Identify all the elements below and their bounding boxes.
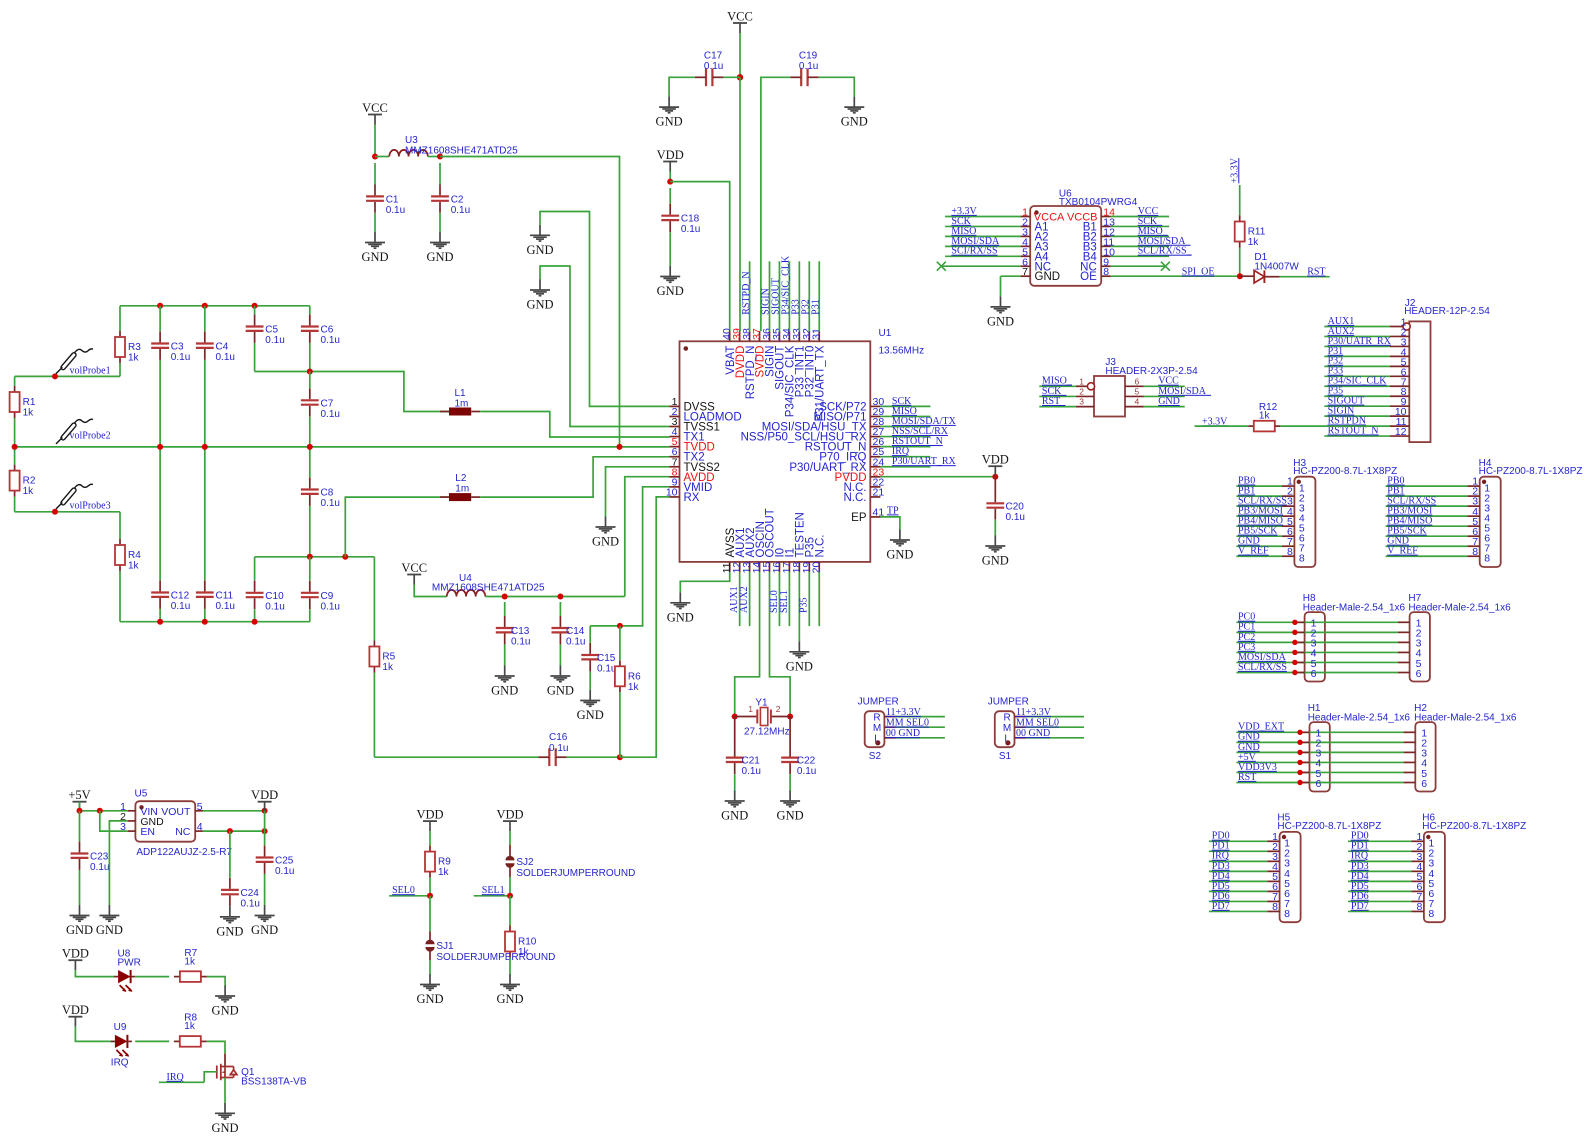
wire DVDD vertical (pin 39) <box>739 77 741 331</box>
U5 pin 5 VOUT <box>195 810 203 812</box>
capacitor C4 <box>196 344 214 348</box>
svg-text:R4: R4 <box>128 550 141 561</box>
wire VMID pin 9 to C15/R6 <box>590 487 669 626</box>
junction lower rail C8 <box>307 554 313 560</box>
svg-text:GND: GND <box>886 548 913 562</box>
wire Q1 source to GND <box>224 1078 226 1103</box>
svg-text:+5V: +5V <box>68 788 90 802</box>
svg-text:MMZ1608SHE471ATD25: MMZ1608SHE471ATD25 <box>432 583 545 594</box>
svg-text:C2: C2 <box>451 194 464 205</box>
svg-text:GND: GND <box>657 284 684 298</box>
svg-text:00 GND: 00 GND <box>1016 728 1050 739</box>
U1 pin 5 TVDD <box>669 446 679 448</box>
U1 pin 29 MISO/P71 <box>870 415 880 417</box>
solder jumper SJ2 <box>505 856 514 861</box>
wire down to C25 <box>264 811 266 846</box>
junction VMID R6 <box>617 623 623 629</box>
svg-text:C5: C5 <box>265 325 278 336</box>
wire net stub RSTPD_N <box>749 261 751 331</box>
wire + label 11+3.3V (S2) <box>896 716 945 718</box>
wire C22 to GND <box>789 774 791 790</box>
power VDD (PVDD) <box>988 465 1002 467</box>
svg-text:0.1u: 0.1u <box>549 743 568 754</box>
svg-text:2: 2 <box>1079 386 1084 396</box>
svg-text:20: 20 <box>811 562 823 574</box>
svg-text:6: 6 <box>1135 376 1140 386</box>
header H4 pin 2 + net label PB1 <box>1467 495 1479 497</box>
solder jumper SJ1 <box>425 940 434 945</box>
capacitor C1 <box>374 163 376 185</box>
wire TVSS2 pin 7 to GND <box>606 467 670 517</box>
wire R3 bottom <box>119 363 121 376</box>
U1 pin 17 I1 <box>788 562 790 572</box>
circle J3 pin 1 marker <box>1087 383 1094 390</box>
wire U3 out to TVDD rail <box>440 157 620 447</box>
wire C12 bottom <box>159 609 161 622</box>
wire C11 bottom <box>204 609 206 622</box>
header H3 pin 4 + net label PB3/MOSI <box>1282 515 1294 517</box>
svg-text:M: M <box>873 723 881 734</box>
header H6 pin 2 + net label PD1 <box>1412 850 1424 852</box>
wire VDD to SJ2 <box>509 831 511 845</box>
header H5 pin 1 + net label PD0 <box>1267 840 1279 842</box>
junction C24 <box>227 828 233 834</box>
wire + label 00 GND (S2) <box>896 737 945 739</box>
svg-text:C16: C16 <box>549 732 568 743</box>
wire R4 bottom <box>119 571 121 622</box>
svg-text:0.1u: 0.1u <box>681 224 700 235</box>
svg-text:1m: 1m <box>455 483 469 494</box>
junction top rail C4 <box>202 303 208 309</box>
U1 pin 25 P70_IRQ <box>870 456 880 458</box>
svg-text:0.1u: 0.1u <box>171 601 190 612</box>
ground below C13 <box>495 666 515 682</box>
svg-text:7: 7 <box>1022 266 1028 278</box>
svg-text:VCC: VCC <box>362 101 388 115</box>
U6 pin 6 NC <box>1021 265 1031 267</box>
capacitor C7 <box>301 400 319 404</box>
wire PC0 through H8 pin 1 to H7 pin 1 <box>1236 621 1398 623</box>
svg-text:U3: U3 <box>405 135 418 146</box>
capacitor C8 <box>301 490 319 494</box>
capacitor C11 <box>196 593 214 597</box>
svg-text:GND: GND <box>1158 396 1180 407</box>
header H3 body <box>1294 477 1315 567</box>
junction VOUT/VDD <box>262 808 268 814</box>
svg-text:EP: EP <box>851 512 867 524</box>
svg-text:8: 8 <box>1299 553 1305 565</box>
capacitor C9 <box>301 593 319 597</box>
capacitor C23 <box>79 811 81 842</box>
U1 pin 37 SVDD <box>759 331 761 341</box>
U6 pin 12 B2 <box>1101 235 1111 237</box>
wire VOUT to VDD <box>203 810 265 812</box>
capacitor C6 <box>301 327 319 331</box>
wire + net label P30/UART_RX <box>880 466 930 468</box>
ground (U5 GND) <box>99 905 119 921</box>
power VCC (top) <box>733 22 747 24</box>
U1 pin 27 NSS/P50_SCL/HSU_RX <box>870 436 880 438</box>
capacitor C22 <box>789 717 791 746</box>
svg-text:C1: C1 <box>386 194 399 205</box>
svg-text:S2: S2 <box>869 751 882 762</box>
capacitor C12 <box>151 593 169 597</box>
wire C19 to GND <box>819 77 855 96</box>
probe volProbe3 symbol <box>56 484 93 509</box>
wire C23 to GND <box>79 870 81 905</box>
svg-text:TXB0104PWRG4: TXB0104PWRG4 <box>1059 197 1138 208</box>
ground (DVSS) <box>530 225 550 241</box>
wire C4-C11 column <box>204 360 206 580</box>
header H6 pin 5 + net label PD4 <box>1412 880 1424 882</box>
J2 pin 7 + net label P34/SIC_CLK <box>1390 385 1410 387</box>
header H6 pin 3 + net label IRQ <box>1412 860 1424 862</box>
J2 pin 11 + net label RSTPDN <box>1390 425 1410 427</box>
svg-text:TP: TP <box>887 505 899 516</box>
wire C8 lower rail <box>255 556 375 558</box>
wire R3 top <box>119 306 121 331</box>
wire + net label MOSI/SDA_ (U6 right) <box>1111 245 1169 247</box>
wire bottom rail <box>120 621 310 623</box>
U1 pin 20 N.C. <box>818 562 820 572</box>
svg-text:0.1u: 0.1u <box>597 664 616 675</box>
svg-text:5: 5 <box>1135 386 1140 396</box>
header H6 pin 6 + net label PD5 <box>1412 890 1424 892</box>
U1 pin 22 N.C. <box>870 486 880 488</box>
wire + net label MISO_ (U6 right) <box>1111 235 1169 237</box>
capacitor C25 <box>256 858 274 862</box>
U6 pin 11 B3 <box>1101 245 1111 247</box>
wire R6 top <box>619 626 621 660</box>
junction volProbe1 <box>52 373 58 379</box>
wire C10 top <box>254 557 256 581</box>
power VDD (PWR LED) <box>68 959 82 961</box>
svg-text:0.1u: 0.1u <box>265 601 284 612</box>
junction +5V/C23 <box>77 808 83 814</box>
header H5 body <box>1280 832 1301 922</box>
svg-text:5: 5 <box>197 801 203 813</box>
svg-text:0.1u: 0.1u <box>797 766 816 777</box>
wire + net label SCK_ (U6 right) <box>1111 225 1169 227</box>
wire C7 top <box>309 372 311 389</box>
J2 pin 5 + net label P32 <box>1390 365 1410 367</box>
U6 pin 2 A1 <box>1021 225 1031 227</box>
U1 pin 18 TESTEN <box>798 562 800 572</box>
capacitor C18 <box>669 188 671 204</box>
ground below R10 <box>500 974 520 990</box>
svg-text:8: 8 <box>1272 901 1278 913</box>
wire +5V to VIN <box>80 810 128 812</box>
svg-text:volProbe3: volProbe3 <box>70 501 111 512</box>
svg-text:M: M <box>1003 723 1011 734</box>
power +5V <box>73 801 87 803</box>
junction volProbe3 <box>52 509 58 515</box>
header H7 body <box>1410 612 1430 681</box>
ferrite bead U3 <box>389 150 428 157</box>
ground below C25 <box>255 905 275 921</box>
svg-text:C19: C19 <box>799 51 818 62</box>
U1 pin 39 DVDD <box>739 331 741 341</box>
U1 pin 9 VMID <box>669 486 679 488</box>
wire U6 GND down <box>1000 276 1002 296</box>
svg-text:0.1u: 0.1u <box>321 335 340 346</box>
svg-text:0.1u: 0.1u <box>321 409 340 420</box>
U1 pin 8 AVDD <box>669 476 679 478</box>
svg-text:4: 4 <box>1135 397 1140 407</box>
probe volProbe1 symbol <box>56 349 93 374</box>
svg-text:GND: GND <box>251 923 278 937</box>
svg-text:SPI_OE: SPI_OE <box>1182 266 1215 277</box>
svg-text:R6: R6 <box>628 671 641 682</box>
header H5 pin 2 + net label PD1 <box>1267 850 1279 852</box>
U1 pin 12 AUX1 <box>739 562 741 572</box>
junction VIN/EN <box>97 808 103 814</box>
svg-text:HC-PZ200-8.7L-1X8PZ: HC-PZ200-8.7L-1X8PZ <box>1422 821 1526 832</box>
U1 pin 41 EP <box>870 516 880 518</box>
svg-text:13.56MHz: 13.56MHz <box>879 346 925 357</box>
U6 pin 5 A4 <box>1021 255 1031 257</box>
op-amp U1 main IC PN5321 body <box>680 341 871 562</box>
wire TVDD rail to pin 5 <box>15 446 670 448</box>
svg-text:volProbe1: volProbe1 <box>70 366 111 377</box>
junction Y1 left <box>732 714 738 720</box>
wire VCC to U4 <box>414 585 447 597</box>
svg-text:PD7: PD7 <box>1212 901 1230 912</box>
wire + net label RST <box>1280 276 1330 278</box>
wire U3 out <box>428 156 440 158</box>
U1 pin 7 TVSS2 <box>669 466 679 468</box>
ground below C23 <box>70 905 90 921</box>
U1 pin 32 P32_INT0 <box>808 331 810 341</box>
ground below EP <box>890 530 910 546</box>
svg-text:PWR: PWR <box>118 957 141 968</box>
wire net stub P31 <box>818 261 820 331</box>
svg-text:MM SEL0: MM SEL0 <box>1016 718 1059 729</box>
header H8 body <box>1305 612 1325 681</box>
wire + net label SCL/RX/SS_ (U6 right) <box>1111 255 1169 257</box>
wire top rail <box>120 305 310 307</box>
capacitor C16 <box>549 748 555 766</box>
svg-text:GND: GND <box>526 298 553 312</box>
wire R1 bottom <box>14 418 16 447</box>
svg-text:IRQ: IRQ <box>111 1057 129 1068</box>
svg-text:1k: 1k <box>23 408 35 419</box>
power VDD (R9) <box>423 820 437 822</box>
U1 pin 38 RSTPD_N <box>749 331 751 341</box>
U1 pin 30 SCK/P72 <box>870 405 880 407</box>
svg-text:+3.3V: +3.3V <box>1229 157 1240 183</box>
svg-text:C9: C9 <box>321 591 334 602</box>
J2 pin 10 + net label SIGIN <box>1390 415 1410 417</box>
diode D1 <box>1240 275 1254 277</box>
wire C14 to GND <box>559 645 561 666</box>
LED U9 IRQ <box>115 1035 128 1048</box>
U5 pin 1 VIN <box>128 810 136 812</box>
J2 pin 1 + net label AUX1 <box>1390 326 1403 328</box>
resistor R8 <box>174 1040 180 1042</box>
wire +3.3V to R12 <box>1195 425 1249 427</box>
header H3 pin 5 + net label PB4/MISO <box>1282 525 1294 527</box>
ground below C18 <box>660 266 680 282</box>
svg-text:R: R <box>873 712 880 723</box>
header H6 pin 8 + net label PD7 <box>1412 910 1424 912</box>
svg-text:8: 8 <box>1416 901 1422 913</box>
wire R4 top <box>119 512 121 539</box>
header H4 body <box>1480 477 1501 567</box>
svg-text:VCC: VCC <box>401 561 427 575</box>
svg-text:GND: GND <box>426 250 453 264</box>
svg-text:GND: GND <box>777 809 804 823</box>
svg-text:BSS138TA-VB: BSS138TA-VB <box>241 1077 307 1088</box>
ground below C21 <box>725 791 745 807</box>
svg-text:GND: GND <box>786 659 813 673</box>
wire net stub SIGOUT <box>778 261 780 331</box>
wire R1 top <box>14 376 16 386</box>
wire SCL/RX/SS through H8 pin 6 to H7 pin 6 <box>1236 672 1398 674</box>
resistor R1 <box>14 386 16 392</box>
wire C9 bottom <box>309 609 311 621</box>
wire GND through H1 pin 3 to H2 pin 3 <box>1236 751 1403 753</box>
svg-text:C8: C8 <box>321 488 334 499</box>
ground below C24 <box>220 906 240 922</box>
junction top rail C5 <box>252 303 258 309</box>
wire C9 top <box>309 557 311 581</box>
junction TVDD rail C7/C8 <box>307 444 313 450</box>
resistor R6 <box>619 660 621 666</box>
probe volProbe2 symbol <box>56 419 93 444</box>
wire + net label SEL1 <box>474 895 510 897</box>
svg-text:EN: EN <box>140 826 155 838</box>
svg-text:0.1u: 0.1u <box>451 205 470 216</box>
U1 pin 3 TVSS1 <box>669 426 679 428</box>
svg-text:1k: 1k <box>23 486 35 497</box>
junction C16/R6/RX <box>617 754 623 760</box>
U1 pin 15 OSCOUT <box>769 562 771 572</box>
svg-text:0.1u: 0.1u <box>90 862 109 873</box>
wire + net label SCK (U6 left) <box>945 225 1021 227</box>
capacitor C5 <box>246 327 264 331</box>
U6 pin 9 NC <box>1101 265 1111 267</box>
svg-text:0.1u: 0.1u <box>216 352 235 363</box>
wire volProbe1 node <box>15 375 120 377</box>
svg-text:P31: P31 <box>810 299 821 315</box>
svg-text:R10: R10 <box>518 937 537 948</box>
svg-text:1k: 1k <box>1259 410 1271 421</box>
svg-text:C20: C20 <box>1006 501 1025 512</box>
junction TVDD rail C4 column <box>202 444 208 450</box>
svg-text:6: 6 <box>1316 778 1322 790</box>
wire RST through H1 pin 6 to H2 pin 6 <box>1236 782 1403 784</box>
wire R10 to GND <box>509 958 511 975</box>
svg-text:1N4007W: 1N4007W <box>1254 262 1299 273</box>
ground (PWR LED) <box>215 986 235 1002</box>
svg-text:VDD: VDD <box>416 808 443 822</box>
wire U6 GND pin 7 <box>1001 275 1021 277</box>
header H5 pin 4 + net label PD3 <box>1267 870 1279 872</box>
svg-text:VCC: VCC <box>727 10 753 24</box>
wire + net label AUX2 <box>749 572 751 626</box>
svg-text:RSTOUT_N: RSTOUT_N <box>1328 425 1379 436</box>
wire C19 to SVDD vertical (pin 37) <box>761 77 790 331</box>
wire mid rail to L1 <box>255 372 449 412</box>
J2 pin 2 + net label AUX2 <box>1390 335 1410 337</box>
connector J3 body <box>1094 376 1125 417</box>
svg-text:Y1: Y1 <box>755 697 768 708</box>
svg-text:0.1u: 0.1u <box>171 352 190 363</box>
U1 pin 21 N.C. <box>870 496 880 498</box>
capacitor C19 <box>801 68 807 86</box>
svg-text:6: 6 <box>1311 668 1317 680</box>
capacitor C15 <box>589 626 591 643</box>
ground (Q1 source) <box>215 1103 235 1119</box>
header H3 pin 7 + net label GND <box>1282 545 1294 547</box>
svg-text:NC: NC <box>175 826 191 838</box>
U1 pin 4 TX1 <box>669 436 679 438</box>
svg-text:GND: GND <box>987 314 1014 328</box>
svg-text:GND: GND <box>216 924 243 938</box>
wire NC row <box>203 830 265 832</box>
U1 pin 11 AVSS <box>729 562 731 572</box>
ground below SJ1 <box>420 974 440 990</box>
wire PC3 through H8 pin 4 to H7 pin 4 <box>1236 651 1398 653</box>
wire L2 to TX2 pin 6 <box>480 457 669 497</box>
ground (U6) <box>991 296 1011 312</box>
LED U8 PWR <box>118 970 131 983</box>
U1 pin 31 P31/UART_TX <box>818 331 820 341</box>
svg-text:C13: C13 <box>511 626 530 637</box>
svg-text:1k: 1k <box>438 867 450 878</box>
ground (TVSS2) <box>596 517 616 533</box>
power VDD (IRQ LED) <box>68 1016 82 1018</box>
svg-text:12: 12 <box>1395 426 1407 438</box>
svg-text:C12: C12 <box>171 591 190 602</box>
capacitor C17 <box>706 68 712 86</box>
svg-text:ADP122AUJZ-2.5-R7: ADP122AUJZ-2.5-R7 <box>136 847 232 858</box>
header H4 pin 6 + net label PB5/SCK <box>1467 535 1479 537</box>
wire + label MM SEL0 (S2) <box>896 726 945 728</box>
wire + label 11+3.3V (S1) <box>1026 716 1084 718</box>
svg-text:VDD: VDD <box>982 453 1009 467</box>
wire +5V down <box>79 802 81 811</box>
wire R9 to SEL0 <box>429 878 431 896</box>
wire + net label P35 <box>808 572 810 626</box>
U1 pin 1 DVSS <box>669 405 679 407</box>
svg-text:RST: RST <box>1238 772 1256 783</box>
J2 pin 6 + net label P33 <box>1390 375 1410 377</box>
junction TVDD rail U3 feed <box>617 444 623 450</box>
svg-text:C7: C7 <box>321 398 334 409</box>
wire VDD to VBAT (pin 40) <box>670 182 730 332</box>
wire EN tie <box>100 811 128 831</box>
ground below C14 <box>550 666 570 682</box>
U1 pin 28 MOSI/SDA/HSU_TX <box>870 426 880 428</box>
header H6 pin 1 + net label PD0 <box>1412 840 1424 842</box>
ground (AVSS) <box>670 592 690 608</box>
wire SEL0 to SJ1 <box>429 896 431 932</box>
ground below C1 <box>365 232 385 248</box>
wire L1 to TX1 pin 4 <box>480 412 669 438</box>
wire VDD3V3 through H1 pin 5 to H2 pin 5 <box>1236 771 1403 773</box>
wire + net label MOSI/SDA/TX <box>880 426 930 428</box>
power VCC (U3 input) <box>368 114 382 116</box>
wire R5 top <box>373 557 375 641</box>
junction SEL1 <box>507 893 513 899</box>
svg-text:1k: 1k <box>128 561 140 572</box>
wire MOSI/SDA through H8 pin 5 to H7 pin 5 <box>1236 661 1398 663</box>
wire + net label NSS/SCL/RX <box>880 436 930 438</box>
svg-text:C21: C21 <box>742 756 761 767</box>
voltage regulator U5 body <box>135 801 195 842</box>
